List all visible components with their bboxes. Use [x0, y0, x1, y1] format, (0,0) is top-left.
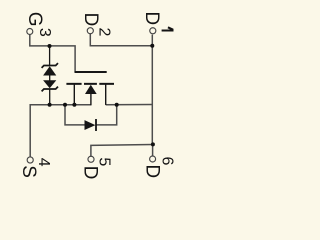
- svg-text:5: 5: [96, 157, 113, 166]
- svg-text:D: D: [80, 12, 101, 26]
- svg-text:D: D: [80, 166, 101, 180]
- svg-text:S: S: [18, 165, 39, 178]
- svg-text:G: G: [24, 12, 45, 27]
- svg-text:2: 2: [95, 28, 112, 37]
- svg-text:4: 4: [35, 158, 52, 167]
- svg-text:3: 3: [36, 28, 53, 37]
- svg-text:6: 6: [159, 157, 176, 166]
- svg-text:D: D: [141, 11, 162, 25]
- svg-text:D: D: [141, 164, 162, 178]
